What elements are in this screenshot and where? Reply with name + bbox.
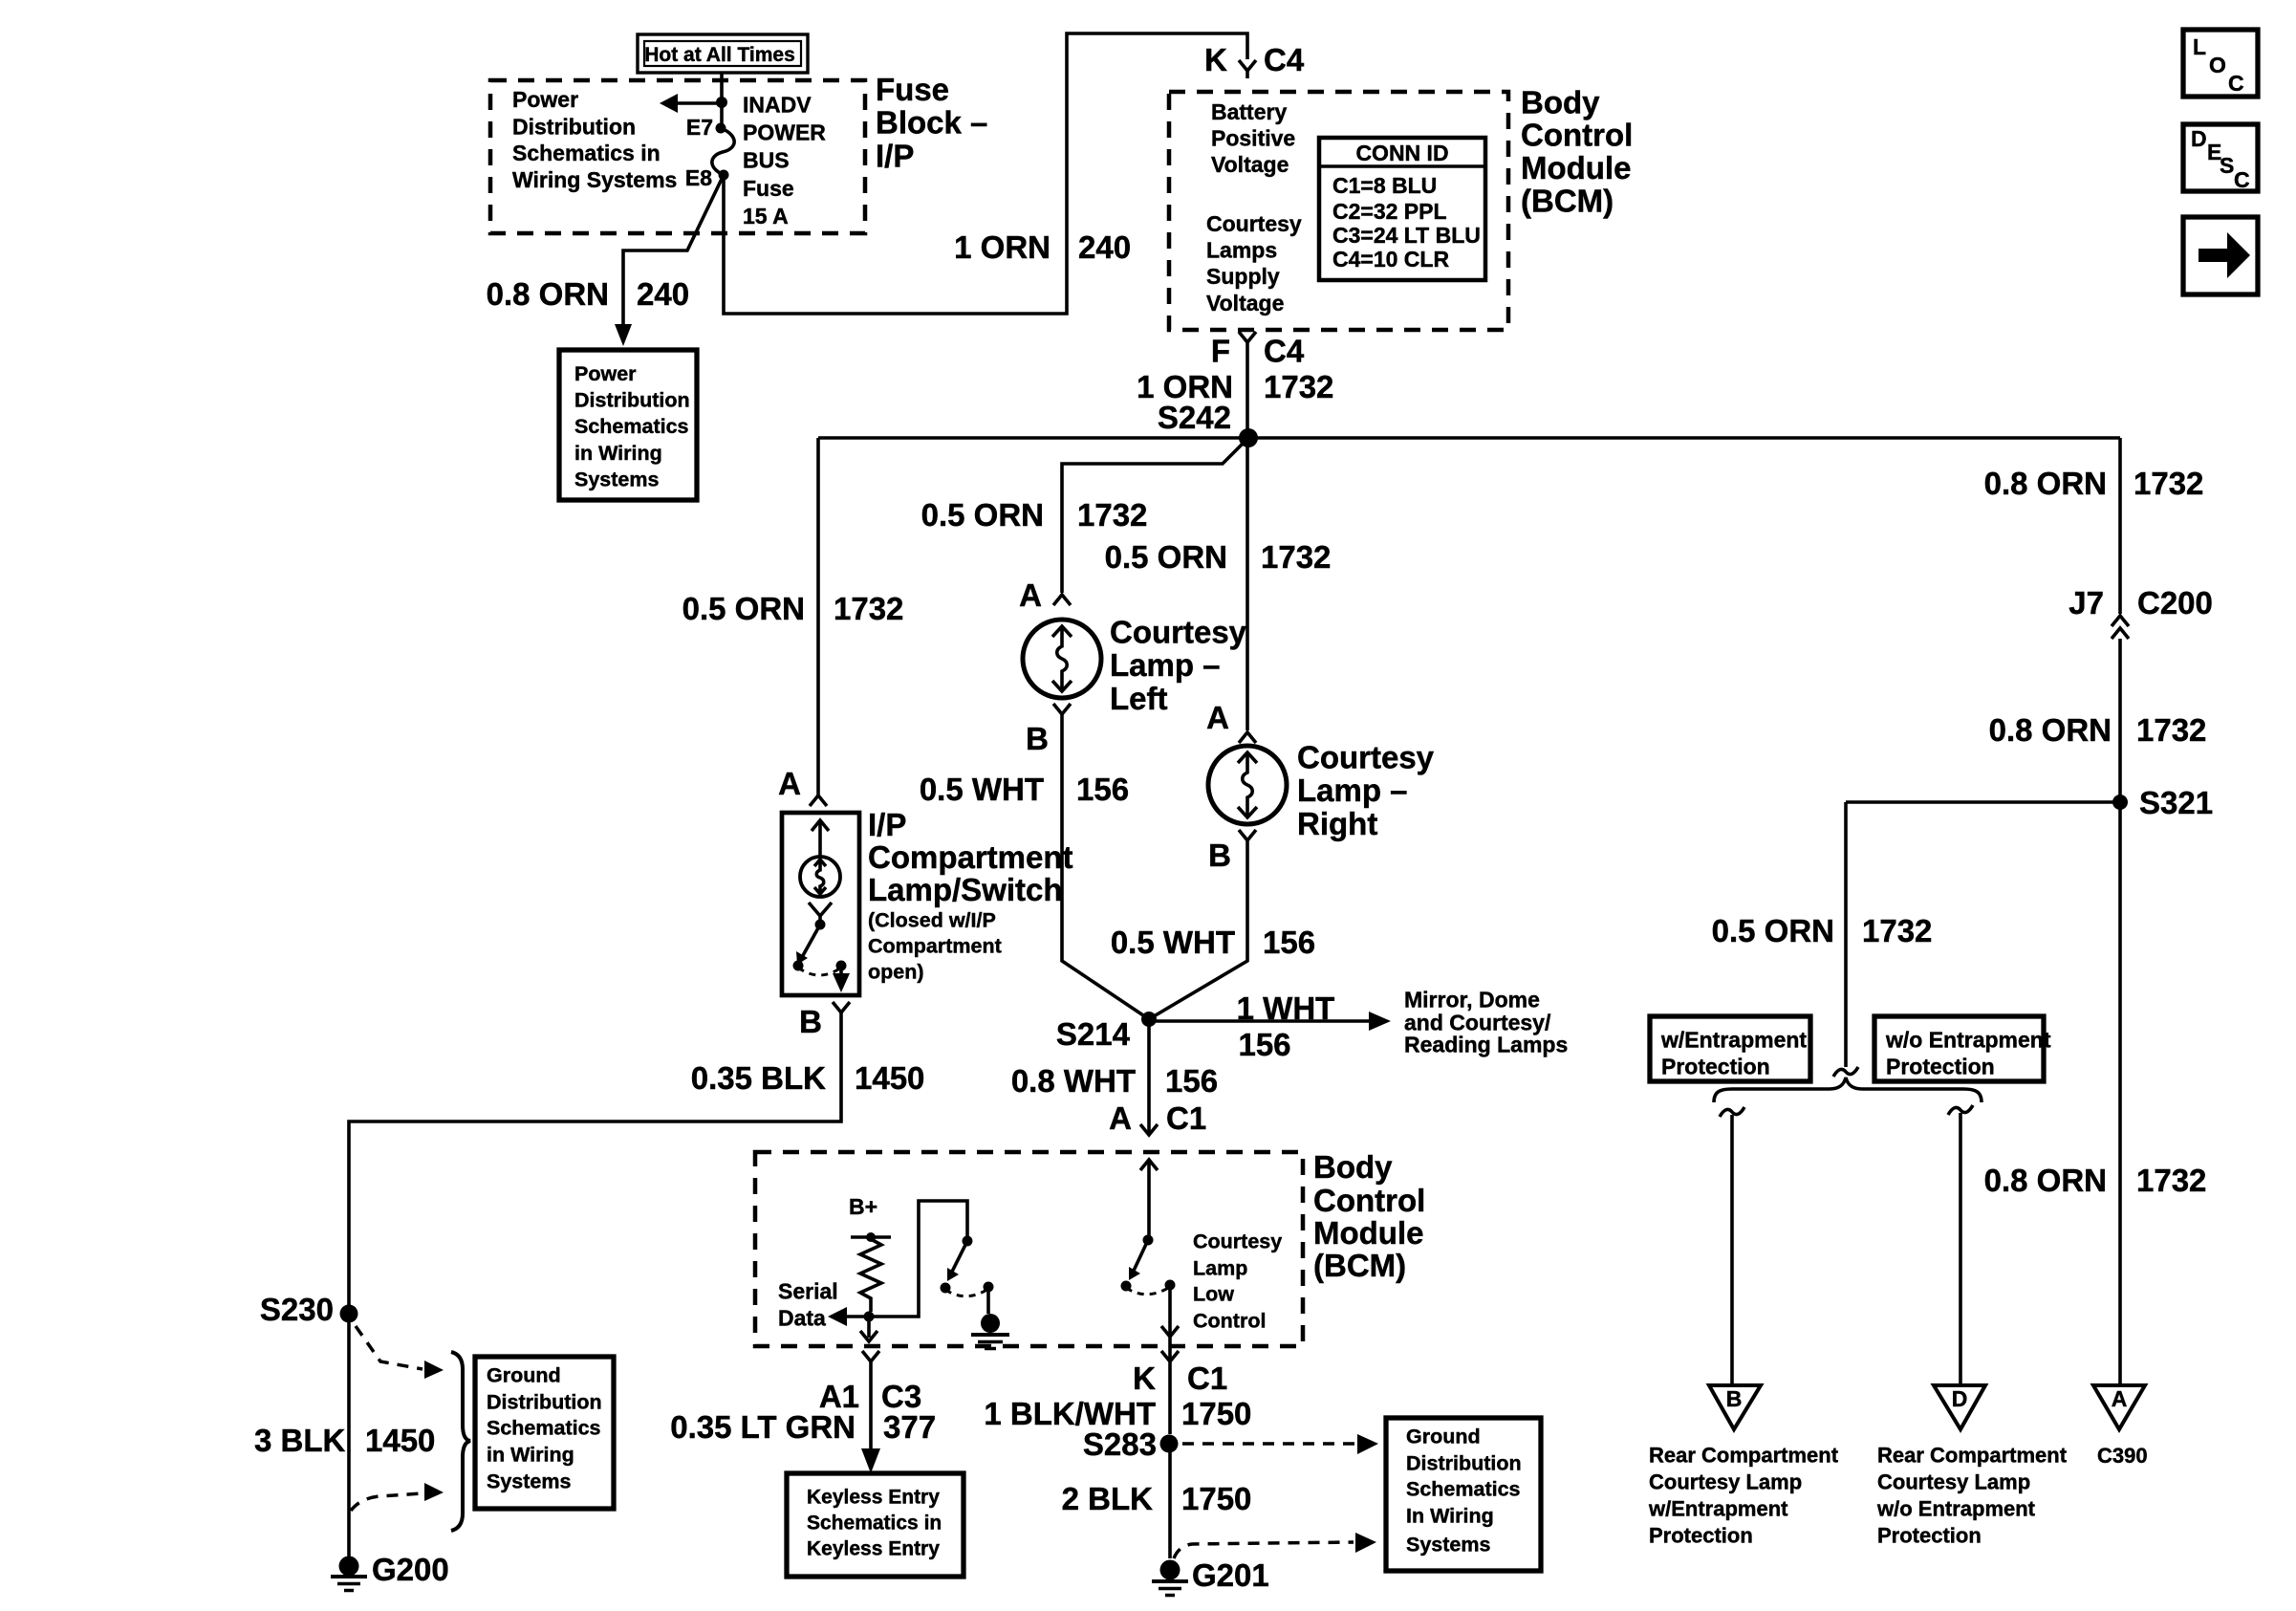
svg-text:0.5 WHT: 0.5 WHT [920,772,1044,807]
svg-text:1732: 1732 [2134,466,2203,501]
svg-text:0.5 ORN: 0.5 ORN [682,591,805,626]
svg-text:1732: 1732 [1077,497,1147,533]
svg-text:0.8 ORN: 0.8 ORN [487,276,609,312]
svg-text:w/Entrapment: w/Entrapment [1648,1497,1788,1521]
svg-text:C4: C4 [1264,334,1305,369]
svg-text:Control: Control [1193,1310,1266,1333]
svg-text:156: 156 [1076,772,1129,807]
svg-text:0.8 WHT: 0.8 WHT [1011,1063,1136,1099]
svg-text:C390: C390 [2097,1444,2148,1468]
svg-text:Reading Lamps: Reading Lamps [1404,1033,1568,1057]
svg-text:K: K [1133,1361,1156,1396]
svg-text:w/Entrapment: w/Entrapment [1660,1028,1807,1053]
svg-text:C: C [2234,167,2250,192]
svg-text:In Wiring: In Wiring [1406,1505,1494,1528]
svg-text:Supply: Supply [1206,264,1280,289]
svg-text:A: A [2112,1386,2128,1411]
svg-text:B: B [799,1004,822,1039]
svg-text:Block –: Block – [876,105,987,141]
svg-text:1732: 1732 [1261,539,1331,575]
svg-text:Schematics in: Schematics in [512,141,661,165]
svg-text:B: B [1208,838,1231,873]
svg-text:1 ORN: 1 ORN [954,229,1051,265]
svg-text:Schematics: Schematics [574,415,689,438]
svg-text:Ground: Ground [1406,1426,1481,1448]
svg-text:S321: S321 [2139,785,2213,820]
svg-text:Lamp –: Lamp – [1297,773,1408,808]
svg-text:3 BLK: 3 BLK [254,1423,346,1458]
svg-text:L: L [2193,34,2206,59]
svg-text:K: K [1204,42,1227,77]
svg-text:15 A: 15 A [743,204,789,229]
svg-text:(BCM): (BCM) [1313,1248,1406,1283]
svg-text:Distribution: Distribution [574,389,690,412]
svg-text:1750: 1750 [1181,1481,1251,1516]
svg-text:Module: Module [1313,1215,1423,1251]
svg-text:Rear Compartment: Rear Compartment [1649,1444,1839,1468]
svg-text:J7: J7 [2069,585,2104,620]
svg-text:Power: Power [512,87,578,112]
svg-text:1732: 1732 [2136,1163,2206,1198]
svg-text:S242: S242 [1158,400,1231,435]
svg-text:Low: Low [1193,1283,1234,1306]
svg-text:C4=10 CLR: C4=10 CLR [1332,247,1449,272]
svg-text:B: B [1026,721,1049,756]
svg-text:Protection: Protection [1649,1524,1753,1548]
svg-text:Rear Compartment: Rear Compartment [1877,1444,2068,1468]
svg-text:Courtesy: Courtesy [1206,211,1302,236]
svg-text:S: S [2220,153,2234,178]
svg-text:A: A [1206,700,1229,735]
svg-text:Protection: Protection [1886,1055,1995,1079]
svg-text:0.5 WHT: 0.5 WHT [1111,925,1235,960]
svg-text:D: D [1952,1386,1968,1411]
svg-text:0.8 ORN: 0.8 ORN [1989,712,2112,748]
svg-text:Lamps: Lamps [1206,238,1277,263]
svg-text:Lamp –: Lamp – [1110,647,1221,683]
svg-text:C2=32 PPL: C2=32 PPL [1332,199,1447,224]
svg-text:Schematics in: Schematics in [807,1513,942,1535]
svg-text:in Wiring: in Wiring [487,1444,574,1467]
svg-text:(Closed w/I/P: (Closed w/I/P [868,909,996,932]
svg-text:0.5 ORN: 0.5 ORN [1105,539,1227,575]
svg-text:B: B [1726,1386,1743,1411]
svg-text:Lamp/Switch: Lamp/Switch [868,872,1063,907]
svg-text:Courtesy: Courtesy [1110,615,1247,650]
svg-text:A: A [1109,1100,1132,1136]
svg-text:E7: E7 [686,115,713,140]
svg-text:0.8 ORN: 0.8 ORN [1984,1163,2107,1198]
svg-text:1732: 1732 [2136,712,2206,748]
svg-text:C1: C1 [1187,1361,1227,1396]
svg-text:1732: 1732 [834,591,903,626]
svg-text:G200: G200 [372,1552,449,1587]
svg-text:240: 240 [637,276,689,312]
svg-text:Distribution: Distribution [487,1391,602,1414]
svg-text:Courtesy: Courtesy [1297,740,1435,775]
svg-text:240: 240 [1078,229,1131,265]
svg-text:Courtesy Lamp: Courtesy Lamp [1649,1470,1802,1494]
svg-text:Compartment: Compartment [868,839,1073,875]
svg-text:1732: 1732 [1862,913,1932,948]
svg-text:O: O [2209,53,2226,77]
svg-text:Power: Power [574,362,637,385]
svg-text:C3=24 LT BLU: C3=24 LT BLU [1332,223,1481,248]
svg-text:Body: Body [1521,84,1600,120]
svg-text:Wiring Systems: Wiring Systems [512,167,677,192]
svg-text:Courtesy Lamp: Courtesy Lamp [1877,1470,2030,1494]
svg-text:Lamp: Lamp [1193,1257,1247,1280]
svg-text:156: 156 [1263,925,1315,960]
svg-text:S283: S283 [1083,1426,1157,1462]
svg-text:D: D [2191,126,2207,151]
svg-text:F: F [1211,334,1230,369]
svg-text:Battery: Battery [1211,99,1287,124]
svg-text:1450: 1450 [365,1423,435,1458]
svg-text:1 WHT: 1 WHT [1237,991,1335,1026]
svg-text:Systems: Systems [574,468,659,490]
svg-text:BUS: BUS [743,147,790,172]
svg-text:Ground: Ground [487,1364,561,1387]
svg-text:Systems: Systems [1406,1534,1490,1557]
svg-text:0.35 LT GRN: 0.35 LT GRN [670,1409,856,1445]
svg-text:Courtesy: Courtesy [1193,1230,1282,1253]
svg-text:(BCM): (BCM) [1521,184,1614,219]
svg-text:POWER: POWER [743,120,826,144]
svg-text:377: 377 [883,1409,936,1445]
svg-text:C1=8 BLU: C1=8 BLU [1332,173,1437,198]
svg-text:1750: 1750 [1181,1396,1251,1431]
svg-text:Schematics: Schematics [487,1417,601,1440]
svg-text:156: 156 [1165,1063,1218,1099]
svg-text:Voltage: Voltage [1211,152,1289,177]
svg-text:Voltage: Voltage [1206,291,1284,316]
svg-text:Keyless Entry: Keyless Entry [807,1487,940,1509]
svg-text:Control: Control [1521,118,1633,153]
svg-text:0.8 ORN: 0.8 ORN [1984,466,2107,501]
svg-text:156: 156 [1238,1027,1290,1062]
svg-text:S214: S214 [1056,1016,1131,1052]
svg-text:Distribution: Distribution [512,115,636,140]
svg-text:INADV: INADV [743,92,812,117]
svg-text:Keyless Entry: Keyless Entry [807,1538,940,1560]
svg-text:Mirror, Dome: Mirror, Dome [1404,988,1540,1012]
svg-text:A: A [1019,577,1042,613]
svg-text:E8: E8 [685,165,712,190]
svg-text:B+: B+ [849,1194,877,1219]
svg-text:w/o Entrapment: w/o Entrapment [1885,1028,2051,1053]
svg-text:Fuse: Fuse [876,72,949,107]
svg-text:1732: 1732 [1264,369,1333,404]
svg-text:Systems: Systems [487,1470,571,1493]
svg-text:in Wiring: in Wiring [574,442,662,465]
svg-text:open): open) [868,961,924,984]
svg-text:Hot at All Times: Hot at All Times [644,44,795,66]
svg-text:0.35 BLK: 0.35 BLK [691,1060,826,1096]
svg-text:CONN ID: CONN ID [1355,141,1448,165]
svg-text:w/o Entrapment: w/o Entrapment [1876,1497,2036,1521]
svg-text:Serial: Serial [778,1279,838,1304]
svg-text:Fuse: Fuse [743,176,794,201]
svg-text:A: A [778,766,801,801]
svg-text:Right: Right [1297,806,1377,841]
svg-text:2 BLK: 2 BLK [1062,1481,1154,1516]
svg-text:Compartment: Compartment [868,935,1002,958]
svg-text:Protection: Protection [1877,1524,1982,1548]
svg-text:Distribution: Distribution [1406,1452,1522,1475]
svg-text:1450: 1450 [855,1060,924,1096]
svg-text:Data: Data [778,1306,826,1331]
svg-text:0.5 ORN: 0.5 ORN [921,497,1044,533]
svg-text:C4: C4 [1264,42,1305,77]
svg-text:C1: C1 [1166,1100,1206,1136]
svg-text:S230: S230 [260,1292,334,1327]
svg-text:I/P: I/P [868,807,906,842]
svg-text:Left: Left [1110,681,1168,716]
svg-text:G201: G201 [1192,1557,1269,1593]
svg-text:Schematics: Schematics [1406,1478,1521,1501]
svg-text:Control: Control [1313,1183,1425,1218]
svg-text:Module: Module [1521,150,1631,185]
svg-text:C200: C200 [2137,585,2213,620]
svg-text:Positive: Positive [1211,126,1295,151]
svg-text:Protection: Protection [1661,1055,1770,1079]
svg-text:0.5 ORN: 0.5 ORN [1712,913,1834,948]
svg-text:C: C [2228,71,2244,96]
svg-text:I/P: I/P [876,138,914,173]
svg-text:Body: Body [1313,1149,1393,1185]
